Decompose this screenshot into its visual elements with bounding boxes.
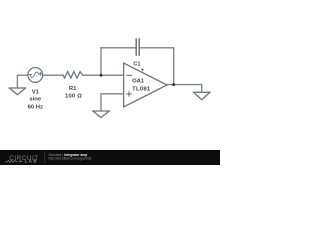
svg-text:60 Hz: 60 Hz — [28, 104, 43, 110]
svg-text:TL081: TL081 — [132, 87, 151, 93]
svg-text:V1: V1 — [32, 90, 40, 96]
svg-text:100 Ω: 100 Ω — [65, 93, 82, 99]
svg-text:http://circuitlab.com/c/gue933: http://circuitlab.com/c/gue933 — [49, 156, 92, 160]
svg-text:sine: sine — [29, 97, 42, 103]
svg-text:R1: R1 — [69, 86, 77, 92]
svg-text:C1: C1 — [133, 62, 140, 68]
svg-text:OA1: OA1 — [132, 79, 145, 85]
svg-text:LAB: LAB — [25, 159, 38, 164]
